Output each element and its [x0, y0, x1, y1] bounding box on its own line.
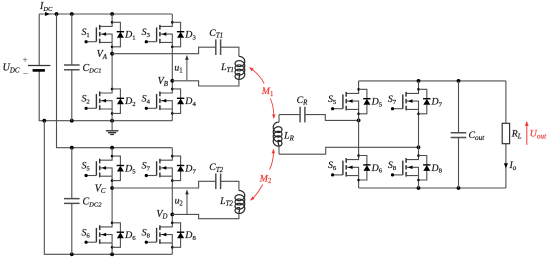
transistor S3	[160, 22, 172, 26]
wire VD link	[171, 181, 173, 223]
junction top rail / leg S1	[110, 12, 114, 16]
svg-text:D1: D1	[124, 30, 135, 42]
diode D6	[359, 156, 367, 181]
resistor RL	[505, 81, 507, 188]
wire S4 to bottom rail	[171, 113, 173, 120]
node VB	[170, 79, 174, 83]
transistor S5	[100, 156, 112, 160]
svg-text:RL: RL	[511, 129, 522, 141]
wire CT2 to LT2	[221, 181, 239, 190]
svg-text:D3: D3	[184, 30, 196, 42]
wire rect S7 to tap	[418, 114, 420, 148]
wire LR bottom to rectifier	[279, 147, 419, 154]
svg-text:u1: u1	[174, 63, 182, 75]
svg-text:u2: u2	[175, 196, 184, 208]
svg-text:D6: D6	[371, 163, 383, 175]
capacitor CDC2	[71, 148, 73, 255]
svg-text:S8: S8	[388, 160, 397, 172]
node VA	[110, 52, 114, 56]
junction rectifier input top	[357, 119, 361, 123]
svg-text:LT1: LT1	[220, 62, 234, 74]
wire rect leg S5	[358, 81, 360, 89]
wire leg S3-S4	[171, 14, 173, 22]
junction top rail 2 / leg S5	[110, 146, 114, 150]
svg-text:CT1: CT1	[209, 28, 223, 40]
svg-text:S7: S7	[142, 161, 151, 173]
svg-text:Cout: Cout	[469, 130, 486, 142]
diode D8	[419, 156, 427, 181]
junction top rail rectifier / leg S7	[417, 79, 421, 83]
svg-text:VA: VA	[97, 49, 108, 61]
svg-text:VD: VD	[156, 209, 167, 221]
diode D2	[112, 89, 120, 114]
svg-text:S2: S2	[81, 94, 89, 106]
voltage arrow Uout	[526, 125, 528, 145]
junction bottom rail 2 / CDC2	[70, 252, 74, 256]
svg-text:S5: S5	[81, 161, 90, 173]
transistor S6	[346, 156, 358, 160]
coupling arrow M1	[251, 69, 264, 84]
wire VC link	[111, 181, 113, 223]
svg-text:D6: D6	[124, 230, 136, 242]
ground	[111, 121, 113, 131]
diode D6	[112, 223, 120, 248]
wire top rail bridge 2	[72, 147, 173, 149]
svg-text:M2: M2	[259, 173, 272, 185]
inductor LT1	[235, 56, 245, 79]
wire rect tap to S8	[418, 147, 420, 155]
junction bottom rail rectifier / leg S8	[417, 186, 421, 190]
svg-text:D7: D7	[184, 163, 196, 175]
svg-text:+: +	[22, 56, 27, 66]
svg-text:D7: D7	[431, 97, 443, 109]
node VD	[170, 213, 174, 217]
diode D7	[172, 156, 180, 181]
wire link bottom rail to bridge 2	[44, 121, 72, 255]
wire top rail rectifier	[359, 80, 506, 82]
voltage arrow u2	[186, 192, 188, 214]
junction top rail / CDC1	[70, 12, 74, 16]
svg-text:VB: VB	[158, 76, 169, 88]
diode D1	[112, 22, 120, 47]
junction bottom rail rectifier / Cout	[457, 186, 461, 190]
wire CT1 to LT1	[221, 47, 239, 56]
wire CR to rectifier	[305, 115, 359, 121]
junction top rail rectifier / Cout	[457, 79, 461, 83]
junction bottom rail 2 / leg S6	[110, 252, 114, 256]
svg-text:−: −	[23, 70, 28, 80]
junction top rail 2 / CDC2	[70, 146, 74, 150]
wire bottom rail rectifier	[359, 187, 506, 189]
capacitor CDC1	[71, 14, 73, 121]
wire LT1 to VB	[172, 79, 239, 86]
wire rect tap to S6	[358, 120, 360, 155]
current arrow IDC	[45, 12, 50, 16]
capacitor CT1	[216, 39, 221, 55]
coupling arrow M2	[270, 152, 274, 169]
svg-text:LR: LR	[283, 130, 294, 142]
wire rect S8 to rail	[418, 180, 420, 188]
capacitor CT2	[216, 174, 221, 190]
svg-text:LT2: LT2	[219, 196, 233, 208]
svg-text:Uout: Uout	[530, 128, 547, 140]
wire bottom rail bridge 2	[72, 253, 173, 255]
svg-text:S3: S3	[142, 27, 151, 39]
wire rect S5 to tap	[358, 114, 360, 121]
wire link top rail to bridge 2	[57, 14, 72, 148]
svg-text:D5: D5	[124, 163, 136, 175]
transistor S8	[160, 223, 172, 227]
wire leg S7-S8	[171, 148, 173, 156]
svg-text:S4: S4	[142, 94, 151, 106]
svg-text:D4: D4	[184, 96, 196, 108]
svg-text:CT2: CT2	[209, 162, 223, 174]
svg-text:S6: S6	[328, 160, 337, 172]
wire LR bottom	[278, 146, 280, 154]
wire rect S6 to rail	[358, 180, 360, 188]
svg-text:VC: VC	[95, 183, 106, 195]
svg-text:S5: S5	[328, 94, 337, 106]
voltage arrow u1	[186, 58, 188, 81]
inductor LT2	[235, 191, 245, 214]
wire VA to CT1	[112, 47, 216, 54]
transistor S5	[346, 89, 358, 93]
wire leg S5-S6	[111, 148, 113, 156]
transistor S8	[406, 156, 418, 160]
wire VA to S2	[111, 47, 113, 89]
capacitor CR	[300, 107, 305, 123]
svg-text:UDC: UDC	[3, 63, 20, 75]
wire LR to CR	[279, 114, 300, 116]
transistor S7	[160, 156, 172, 160]
diode D4	[172, 89, 180, 114]
svg-text:CDC1: CDC1	[83, 63, 102, 75]
wire LT2 to VD	[172, 214, 239, 219]
svg-text:S8: S8	[142, 227, 151, 239]
junction bottom rail / link down	[42, 119, 46, 123]
diode D5	[359, 89, 367, 114]
svg-text:D5: D5	[371, 97, 383, 109]
wire leg S1-S2	[111, 14, 113, 22]
wire bottom rail bridge 1	[44, 120, 172, 122]
svg-text:IDC: IDC	[39, 1, 53, 13]
transistor S4	[160, 89, 172, 93]
svg-text:CR: CR	[297, 95, 309, 107]
svg-text:D8: D8	[184, 230, 196, 242]
diode D8	[172, 223, 180, 248]
svg-text:S6: S6	[81, 227, 90, 239]
battery UDC	[39, 14, 44, 121]
wire S2 to bottom rail	[111, 113, 113, 120]
transistor S6	[100, 223, 112, 227]
svg-text:S7: S7	[388, 94, 397, 106]
junction top rail / link	[55, 12, 59, 16]
wire LR top	[278, 115, 280, 123]
current arrow Io	[504, 163, 508, 168]
wire VC to CT2	[112, 181, 216, 188]
wire rect leg S7	[418, 81, 420, 89]
capacitor Cout	[458, 81, 460, 188]
diode D3	[172, 22, 180, 47]
junction bottom rail / CDC1	[70, 119, 74, 123]
svg-text:Io: Io	[509, 160, 517, 172]
junction rectifier input bottom	[417, 145, 421, 149]
transistor S2	[100, 89, 112, 93]
svg-text:M1: M1	[261, 86, 274, 98]
wire S6 to bottom rail	[111, 247, 113, 254]
svg-text:D2: D2	[124, 96, 135, 108]
inductor LR	[273, 122, 282, 146]
transistor S1	[100, 22, 112, 26]
diode D5	[112, 156, 120, 181]
node VC	[110, 186, 114, 190]
transistor S7	[406, 89, 418, 93]
svg-text:CDC2: CDC2	[83, 196, 103, 208]
wire VB link leg 2	[171, 47, 173, 89]
wire top rail bridge 1	[39, 13, 172, 15]
svg-text:S1: S1	[81, 27, 89, 39]
wire S8 to bottom rail	[171, 247, 173, 254]
junction bottom rail / leg S2 ground	[110, 119, 114, 123]
svg-text:D8: D8	[431, 163, 443, 175]
diode D7	[419, 89, 427, 114]
